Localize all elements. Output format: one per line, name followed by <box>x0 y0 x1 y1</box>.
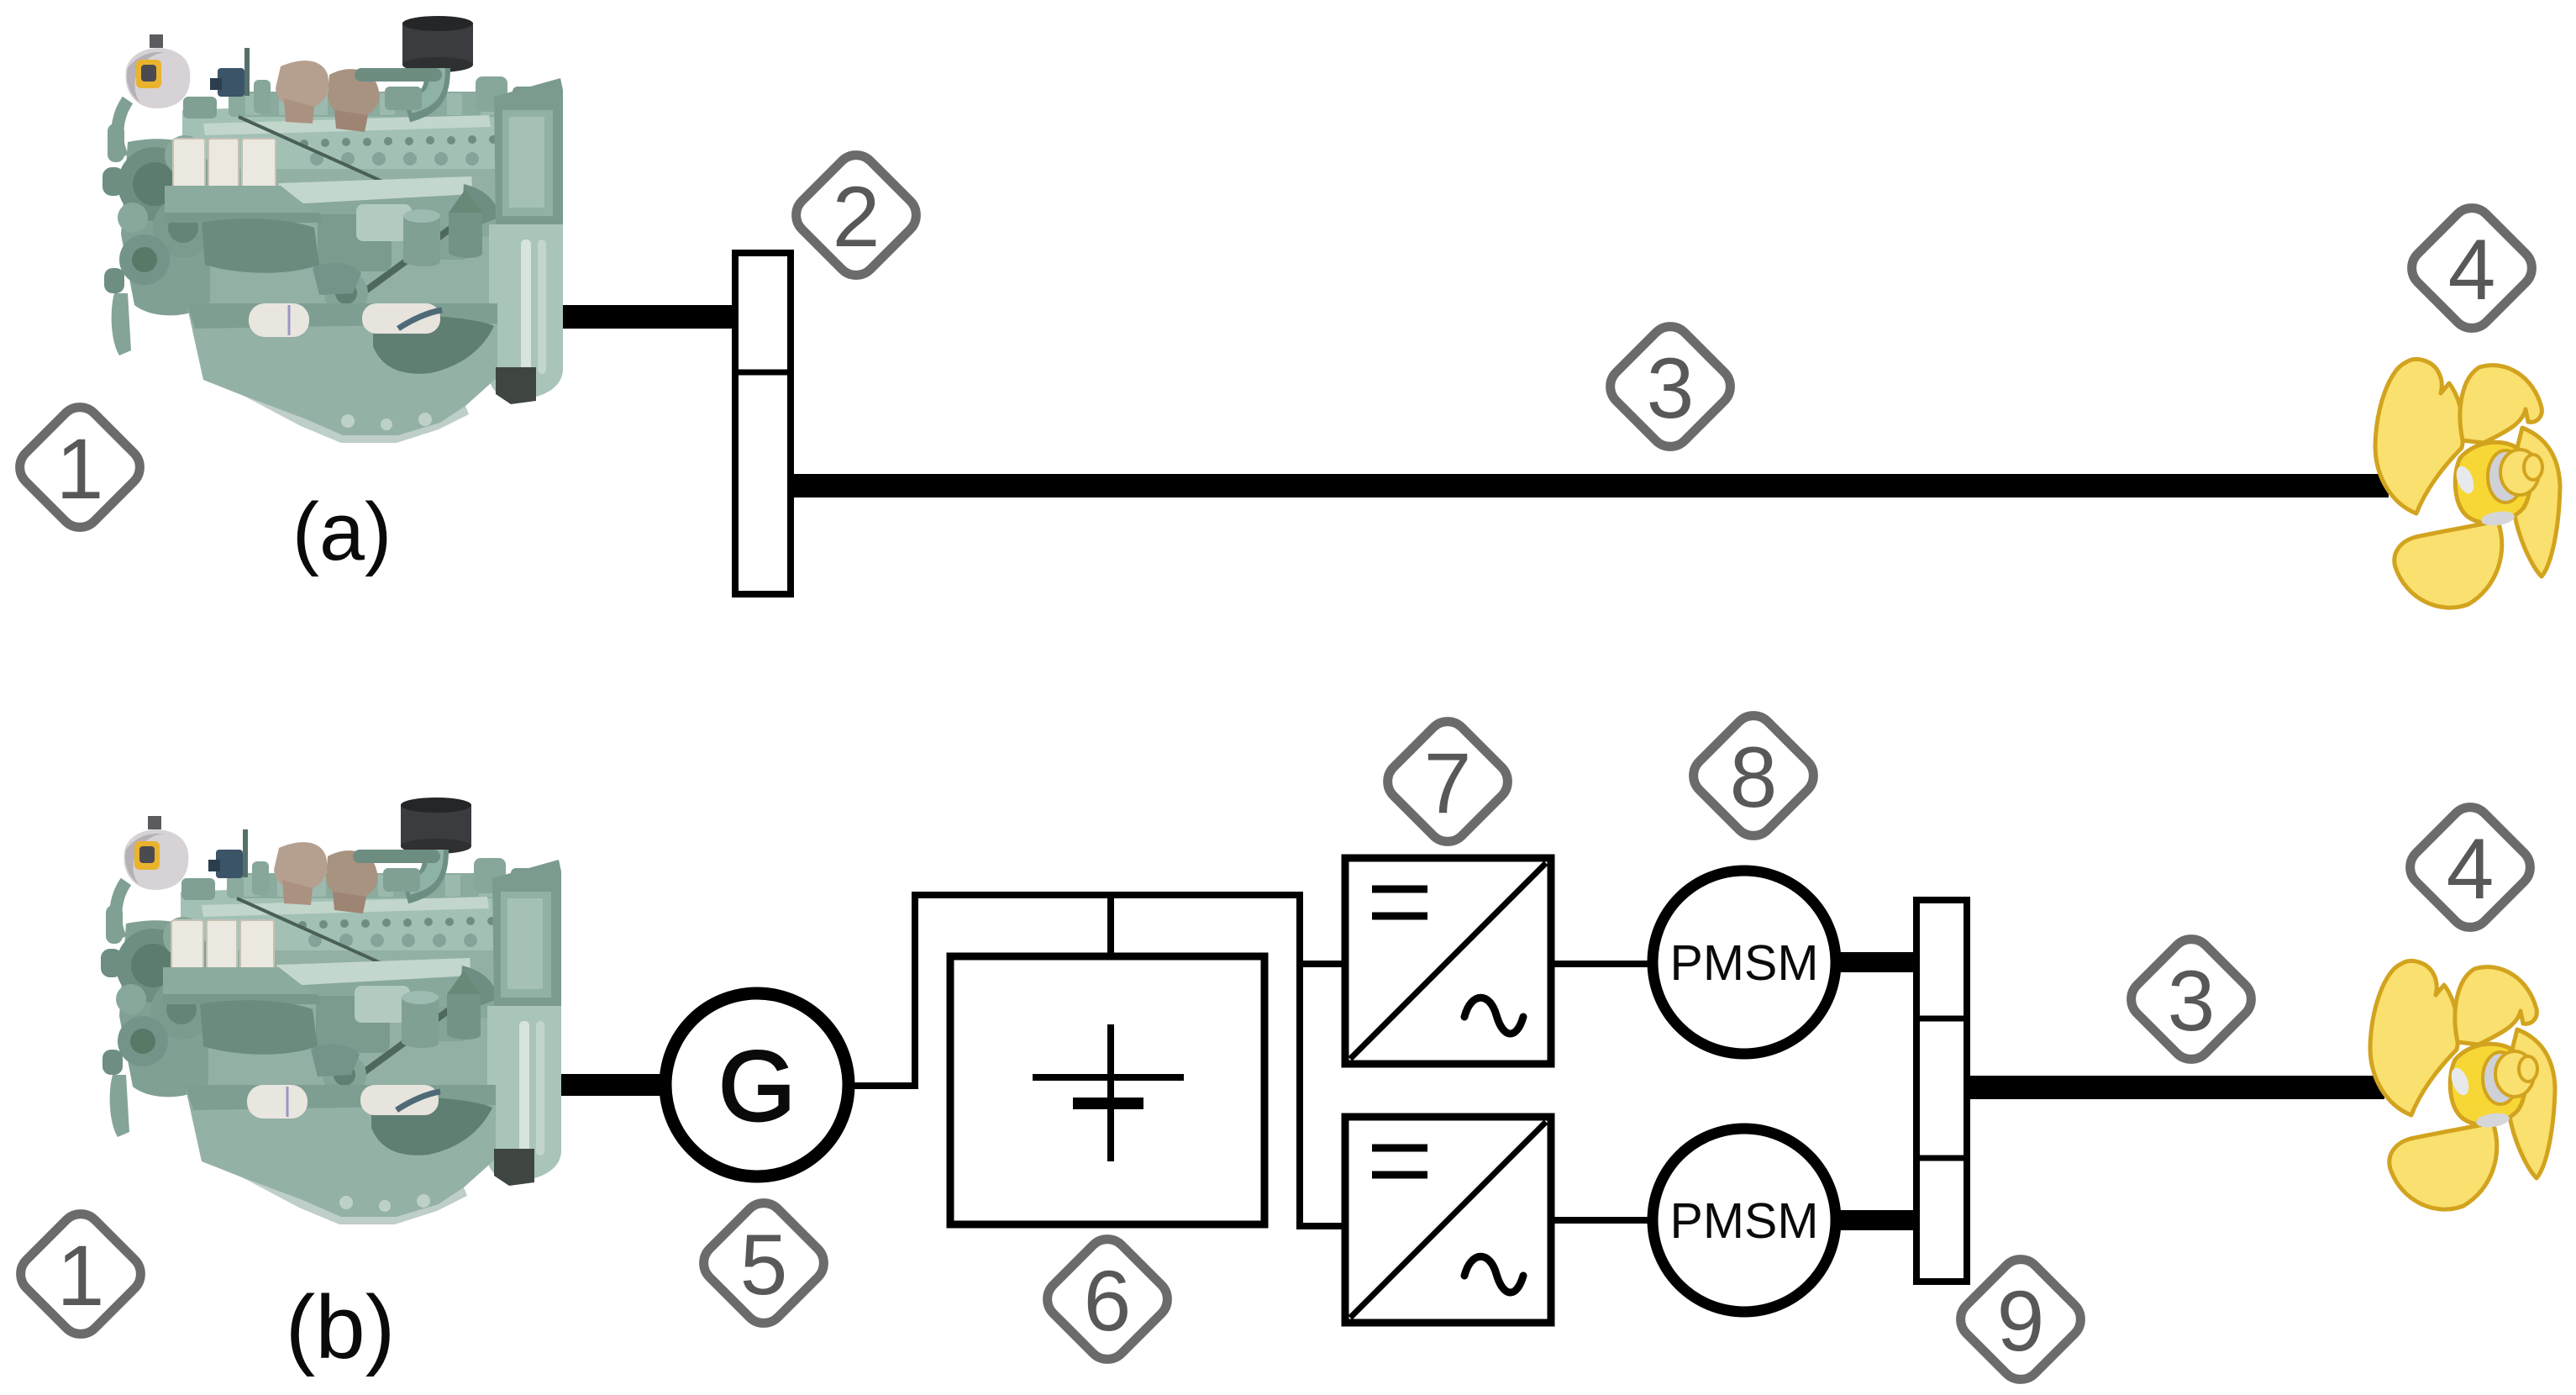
wire DC bus right riser <box>1296 892 1303 1229</box>
svg-text:5: 5 <box>740 1217 788 1313</box>
wire propeller shaft 3 (b) <box>1967 1076 2384 1099</box>
node label 2 <box>788 147 925 284</box>
shaft PMSM to gearbox (top) <box>1832 952 1920 972</box>
node label 4 (a) <box>2404 200 2541 337</box>
svg-text:3: 3 <box>2168 953 2216 1049</box>
svg-text:2: 2 <box>833 169 881 265</box>
node label 6 <box>1039 1231 1176 1368</box>
wire generator output <box>852 1082 918 1089</box>
diesel engine 1 (b) <box>101 798 561 1224</box>
motor PMSM (bottom) <box>1653 1129 1836 1312</box>
svg-text:PMSM: PMSM <box>1670 1193 1819 1249</box>
motor PMSM 8 (top) <box>1653 871 1836 1054</box>
wire shaft engine-to-gearbox (a) <box>538 305 738 329</box>
node label 8 <box>1685 708 1822 845</box>
inverter (bottom) <box>1345 1117 1551 1323</box>
svg-text:G: G <box>718 1031 796 1142</box>
svg-text:7: 7 <box>1424 735 1472 831</box>
wire to lower inverter input <box>1296 1223 1348 1229</box>
svg-text:9: 9 <box>1997 1273 2045 1369</box>
svg-text:(b): (b) <box>286 1277 396 1377</box>
propeller 4 (a) <box>2375 359 2560 608</box>
wire DC bus top rail <box>912 892 1303 898</box>
node label 9 <box>1953 1251 2090 1388</box>
wire propeller shaft 3 (a) <box>791 474 2389 497</box>
node label 3 (b) <box>2123 931 2260 1068</box>
svg-text:4: 4 <box>2448 222 2496 318</box>
wire inverter to PMSM (bottom) <box>1551 1217 1656 1224</box>
svg-text:1: 1 <box>56 421 104 517</box>
node label 1 (a) <box>12 399 149 536</box>
generator G 5 <box>665 993 849 1177</box>
battery 6 <box>950 956 1264 1224</box>
svg-text:6: 6 <box>1084 1253 1132 1349</box>
wire inverter7 to PMSM (top) <box>1551 961 1656 967</box>
svg-text:PMSM: PMSM <box>1670 935 1819 991</box>
svg-text:3: 3 <box>1647 340 1695 436</box>
gearbox 2 <box>735 253 791 594</box>
node label 1 (b) <box>13 1206 150 1343</box>
wire DC bus left riser <box>912 892 918 1089</box>
node label 5 <box>696 1195 833 1332</box>
wire shaft engine-to-generator (b) <box>538 1074 665 1096</box>
shaft PMSM to gearbox (bottom) <box>1832 1210 1920 1230</box>
node label 3 (a) <box>1602 318 1739 455</box>
svg-text:8: 8 <box>1730 729 1778 825</box>
svg-text:1: 1 <box>57 1228 105 1324</box>
wire battery drop / junction <box>1107 892 1114 960</box>
node label 7 <box>1380 713 1517 850</box>
svg-text:(a): (a) <box>292 486 392 577</box>
inverter 7 (top) <box>1345 858 1551 1064</box>
diesel engine 1 (a) <box>103 16 563 443</box>
node label 4 (b) <box>2402 799 2539 936</box>
svg-text:4: 4 <box>2447 821 2495 917</box>
wire to inverter 7 input <box>1296 961 1348 967</box>
propeller 4 (b) <box>2370 961 2555 1209</box>
gearbox 9 <box>1916 900 1967 1282</box>
